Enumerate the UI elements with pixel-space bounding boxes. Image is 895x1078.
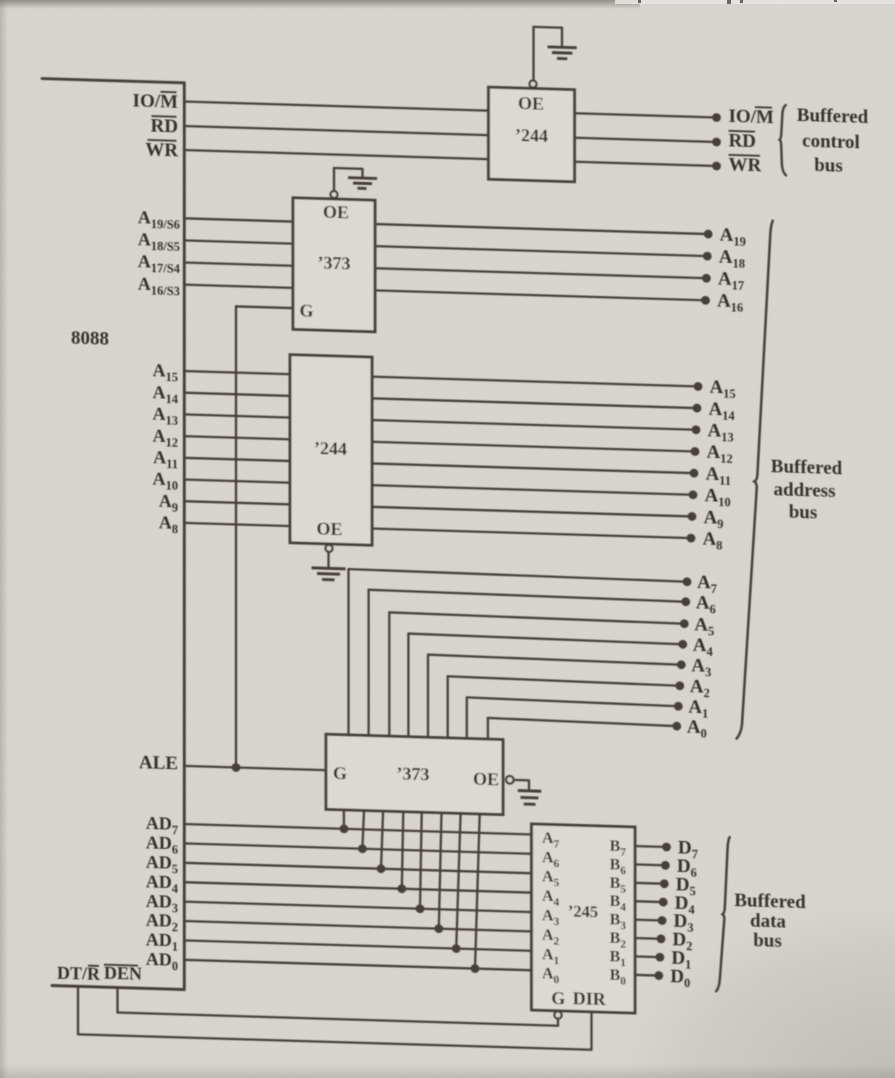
svg-text:DIR: DIR xyxy=(573,988,607,1009)
overline on M of buffered IO/M xyxy=(755,106,772,109)
wire A7 riser from U4 xyxy=(347,569,349,735)
node A5 dot xyxy=(680,619,689,628)
caption Buffered address bus xyxy=(771,456,843,524)
active-low bubble OE (U3) xyxy=(326,545,333,552)
active-low bubble G (U5) xyxy=(554,1011,561,1018)
wire buffered D1 output xyxy=(635,955,660,958)
junction AD3 dot xyxy=(416,904,425,913)
svg-text:OE: OE xyxy=(518,93,544,114)
node A12 dot xyxy=(691,447,700,456)
node A1 dot xyxy=(674,702,683,711)
node buffered IO/M dot xyxy=(712,113,721,122)
wire buffered D4 output xyxy=(635,900,663,903)
wire A3 horizontal run xyxy=(428,655,681,665)
wire AD6 from 8088 to U5 xyxy=(184,843,531,853)
node buffered WR dot xyxy=(712,161,721,170)
scan artifact ticks xyxy=(638,0,837,4)
wire buffered A9 output xyxy=(372,507,692,517)
wire A5 horizontal run xyxy=(389,612,684,623)
wire IO/M from 8088 to U1 xyxy=(184,102,488,111)
wire buffered A15 output xyxy=(372,377,698,387)
wire U4 pin to AD7 xyxy=(343,810,346,829)
svg-text:’244: ’244 xyxy=(515,125,548,146)
wire RD from 8088 to U1 xyxy=(184,126,488,135)
wire buffered A13 output xyxy=(372,420,696,430)
wire AD0 from 8088 to U5 xyxy=(184,960,531,970)
wire A17/S4 from 8088 to U2 xyxy=(184,263,293,266)
junction AD6 dot xyxy=(358,844,367,853)
svg-text:RD: RD xyxy=(729,130,756,152)
wire ground stem (U1) xyxy=(561,28,563,48)
svg-text:WR: WR xyxy=(145,139,178,161)
node A15 dot xyxy=(694,382,703,391)
wire buffered A16 output xyxy=(375,290,706,300)
wire buffered A12 output xyxy=(372,442,695,452)
wire DEN vertical drop xyxy=(116,988,118,1013)
processor 8088 bottom edge xyxy=(52,986,184,990)
svg-text:bus: bus xyxy=(814,155,843,177)
processor 8088 right edge xyxy=(183,83,186,990)
wire buffered D5 output xyxy=(635,882,664,885)
processor 8088 top edge xyxy=(42,79,184,83)
wire A1 horizontal run xyxy=(467,697,679,706)
svg-text:’244: ’244 xyxy=(314,438,347,459)
wire buffered A8 output xyxy=(372,529,691,539)
wire A7 horizontal run xyxy=(349,569,688,582)
svg-text:bus: bus xyxy=(789,502,818,524)
wire AD2 from 8088 to U5 xyxy=(184,921,531,931)
scan artifact bottom band xyxy=(0,1064,895,1078)
node D6 dot xyxy=(661,861,670,870)
scan artifact top band xyxy=(0,0,640,9)
wire A15 from 8088 to U3 xyxy=(184,371,290,374)
junction AD7 dot xyxy=(340,824,349,833)
wire U4 pin to AD4 xyxy=(402,812,404,889)
caption Buffered data bus xyxy=(734,890,806,953)
wire ground horizontal (U1) xyxy=(534,26,563,29)
overline RD xyxy=(152,115,177,118)
overline on M of IO/M xyxy=(161,91,177,93)
svg-text:G: G xyxy=(333,763,347,783)
wire buffered IO/M output xyxy=(575,113,717,117)
wire OE bubble to ground (U4) xyxy=(514,779,529,782)
active-low bubble OE (U2) xyxy=(331,191,338,198)
node D3 dot xyxy=(658,916,667,925)
node D7 dot xyxy=(662,842,671,851)
node buffered RD dot xyxy=(712,137,721,146)
wire ALE vertical branch xyxy=(235,306,237,767)
wire A3 riser from U4 xyxy=(427,655,429,738)
wire A1 riser from U4 xyxy=(466,697,468,738)
overline on R of DT/R xyxy=(88,965,99,967)
wire U4 pin to AD1 xyxy=(456,813,460,949)
wire AD4 from 8088 to U5 xyxy=(184,882,531,892)
wire A4 riser from U4 xyxy=(407,634,409,737)
overline buffered WR xyxy=(729,154,761,157)
node A11 dot xyxy=(690,469,699,478)
wire A10 from 8088 to U3 xyxy=(184,480,290,483)
wire buffered A11 output xyxy=(372,463,694,473)
wire A13 from 8088 to U3 xyxy=(184,414,290,417)
node A13 dot xyxy=(692,425,701,434)
node A0 dot xyxy=(672,722,681,731)
svg-text:OE: OE xyxy=(316,519,342,540)
node A2 dot xyxy=(675,681,684,690)
node D5 dot xyxy=(660,879,669,888)
svg-text:IO/M: IO/M xyxy=(729,106,774,128)
svg-text:’373: ’373 xyxy=(318,253,351,274)
svg-text:G: G xyxy=(551,988,565,1008)
wire U4 pin to AD6 xyxy=(362,810,364,848)
wire A8 from 8088 to U3 xyxy=(184,523,290,526)
svg-text:G: G xyxy=(299,301,313,321)
wire OE bubble to ground (U1) xyxy=(532,27,534,80)
wire buffered D7 output xyxy=(635,845,667,848)
buffer U1 '244 control xyxy=(489,87,575,182)
ground symbol (U3 OE) xyxy=(312,568,346,580)
wire buffered D3 output xyxy=(635,918,662,921)
node D4 dot xyxy=(659,898,668,907)
svg-text:control: control xyxy=(802,131,860,154)
wire A11 from 8088 to U3 xyxy=(184,458,290,461)
wire AD7 from 8088 to U5 xyxy=(184,824,531,834)
ground symbol (U1 OE) xyxy=(548,47,577,59)
svg-text:address: address xyxy=(774,479,836,502)
node A9 dot xyxy=(688,512,697,521)
svg-text:OE: OE xyxy=(323,202,349,223)
node A16 dot xyxy=(701,296,710,305)
node A7 dot xyxy=(683,577,692,586)
wire A4 horizontal run xyxy=(408,634,682,645)
wire ALE branch to U2 G input xyxy=(236,306,293,308)
svg-text:Buffered: Buffered xyxy=(771,456,843,479)
wire DT/R run to U5 DIR xyxy=(78,1034,592,1049)
wire A18/S5 from 8088 to U2 xyxy=(184,240,293,243)
latch U2 '373 upper address xyxy=(293,198,375,332)
junction AD1 dot xyxy=(452,944,461,953)
node A6 dot xyxy=(681,597,690,606)
wire A19/S6 from 8088 to U2 xyxy=(184,218,293,221)
buffer U3 '244 address xyxy=(290,355,372,545)
svg-text:ALE: ALE xyxy=(139,752,178,774)
wire buffered D6 output xyxy=(635,863,665,866)
node A17 dot xyxy=(702,274,711,283)
node A8 dot xyxy=(687,534,696,543)
wire A2 horizontal run xyxy=(448,676,680,685)
wire DT/R vertical drop xyxy=(77,986,79,1034)
bracket buffered control bus xyxy=(780,105,786,175)
wire OE bubble to ground (U2) xyxy=(333,168,335,191)
svg-text:OE: OE xyxy=(473,769,499,790)
svg-text:Buffered: Buffered xyxy=(797,105,869,128)
wire AD3 from 8088 to U5 xyxy=(184,902,531,912)
ground symbol (U4 OE) xyxy=(518,791,542,805)
wire buffered A10 output xyxy=(372,485,693,495)
wire ground horizontal (U2) xyxy=(334,167,363,170)
junction AD2 dot xyxy=(434,924,443,933)
wire OE bubble to ground (U3) xyxy=(327,552,329,569)
ground symbol (U2 OE) xyxy=(348,178,377,189)
brace buffered data bus xyxy=(716,837,729,992)
junction AD0 dot xyxy=(471,964,480,973)
wire ALE from 8088 to U4 G xyxy=(184,766,326,770)
overline DEN xyxy=(104,965,138,966)
junction AD5 dot xyxy=(377,864,386,873)
wire buffered D2 output xyxy=(635,937,661,940)
overline WR xyxy=(148,139,177,142)
scan artifact bottom-right shade xyxy=(620,900,895,1078)
wire A5 riser from U4 xyxy=(388,612,390,736)
wire A14 from 8088 to U3 xyxy=(184,393,290,396)
brace buffered address bus xyxy=(737,220,773,740)
node A19 dot xyxy=(704,230,713,239)
wire ground stem (U4) xyxy=(528,780,530,791)
wire A6 riser from U4 xyxy=(367,590,369,736)
svg-text:’245: ’245 xyxy=(568,902,598,922)
wire A6 horizontal run xyxy=(369,590,686,602)
wire buffered A14 output xyxy=(372,398,697,408)
active-low bubble OE (U4) xyxy=(506,776,514,784)
wire A12 from 8088 to U3 xyxy=(184,436,290,439)
caption Buffered control bus xyxy=(797,105,869,178)
wire DIR riser (U5) xyxy=(590,1012,592,1050)
wire U4 pin to AD2 xyxy=(439,813,442,929)
wire buffered RD output xyxy=(575,138,717,142)
wire U4 pin to AD0 xyxy=(475,814,480,969)
node A10 dot xyxy=(689,490,698,499)
wire AD1 from 8088 to U5 xyxy=(184,940,531,950)
wire AD5 from 8088 to U5 xyxy=(184,863,531,873)
wire buffered A19 output xyxy=(375,224,708,234)
svg-text:WR: WR xyxy=(729,154,762,176)
wire A0 riser from U4 xyxy=(487,718,489,739)
wire A16/S3 from 8088 to U2 xyxy=(184,285,293,288)
junction AD4 dot xyxy=(397,884,406,893)
node D2 dot xyxy=(657,934,666,943)
node D0 dot xyxy=(654,971,663,980)
wire U4 pin to AD5 xyxy=(381,811,383,869)
active-low bubble OE (U1) xyxy=(530,80,537,87)
wire WR from 8088 to U1 xyxy=(184,150,488,159)
transceiver U5 '245 data xyxy=(532,824,636,1013)
svg-text:RD: RD xyxy=(151,116,178,138)
svg-text:IO/M: IO/M xyxy=(133,91,178,113)
latch U4 '373 low address xyxy=(326,734,503,814)
wire buffered WR output xyxy=(575,162,717,166)
wire A0 horizontal run xyxy=(488,718,677,726)
junction ALE branch dot xyxy=(232,763,241,772)
node A3 dot xyxy=(677,660,686,669)
wire stub to G bubble (U5) xyxy=(557,1019,559,1026)
overline buffered RD xyxy=(729,130,756,133)
wire DEN run to U5 G xyxy=(118,1013,559,1026)
node A18 dot xyxy=(703,252,712,261)
node A4 dot xyxy=(678,640,687,649)
scan artifact top-right light strip xyxy=(615,0,895,4)
wire U4 pin to AD3 xyxy=(420,812,422,909)
svg-text:8088: 8088 xyxy=(71,328,109,350)
wire buffered A17 output xyxy=(375,268,706,278)
wire A9 from 8088 to U3 xyxy=(184,501,290,504)
svg-text:’373: ’373 xyxy=(397,764,430,785)
wire ground stem (U2) xyxy=(361,169,363,178)
wire buffered D0 output xyxy=(635,974,659,977)
node D1 dot xyxy=(656,953,665,962)
wire buffered A18 output xyxy=(375,246,707,256)
node A14 dot xyxy=(693,404,702,413)
wire A2 riser from U4 xyxy=(447,676,449,738)
scan artifact left band xyxy=(0,0,8,1078)
